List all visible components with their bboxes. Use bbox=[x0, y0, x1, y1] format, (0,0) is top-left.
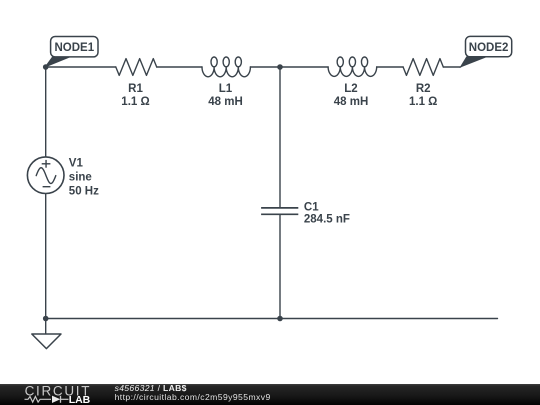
NODE2 flag pointer bbox=[461, 57, 486, 67]
capacitor C1 top plate bbox=[261, 207, 298, 209]
svg-text:1.1 Ω: 1.1 Ω bbox=[121, 96, 149, 108]
capacitor C1 bottom plate bbox=[261, 213, 298, 215]
V1 minus sign bbox=[43, 186, 51, 188]
wire: V1 minus terminal down to bottom rail bbox=[45, 194, 47, 319]
wire: ground stub below junction bbox=[45, 319, 47, 334]
svg-text:R1: R1 bbox=[128, 83, 143, 95]
wire: L1 to node A junction bbox=[250, 66, 280, 68]
svg-text:48 mH: 48 mH bbox=[334, 96, 369, 108]
CircuitLab logo diode triangle bbox=[52, 396, 60, 403]
svg-text:http://circuitlab.com/c2m59y95: http://circuitlab.com/c2m59y955mxv9 bbox=[115, 392, 271, 402]
svg-text:48 mH: 48 mH bbox=[208, 96, 243, 108]
wire: L2 to R2 bbox=[377, 66, 403, 68]
wire: R2 to NODE2 terminal bbox=[443, 66, 460, 68]
svg-text:1.1 Ω: 1.1 Ω bbox=[409, 96, 437, 108]
svg-text:LAB: LAB bbox=[69, 394, 91, 405]
svg-text:50 Hz: 50 Hz bbox=[69, 185, 99, 197]
ground symbol bbox=[32, 334, 61, 349]
svg-text:NODE1: NODE1 bbox=[54, 42, 94, 54]
wire: C1 bottom plate down to bottom rail bbox=[279, 215, 281, 319]
svg-text:L2: L2 bbox=[344, 83, 357, 95]
svg-text:L1: L1 bbox=[219, 83, 233, 95]
wire: bottom ground rail bbox=[46, 318, 498, 320]
V1 sine waveform glyph bbox=[36, 168, 56, 184]
inductor L2 top loops bbox=[337, 57, 343, 67]
inductor L1 top loops bbox=[211, 57, 217, 67]
NODE1 flag pointer bbox=[45, 57, 70, 67]
junction dot: bottom-left ground node bbox=[43, 316, 49, 322]
wire: node A junction to L2 bbox=[280, 66, 328, 68]
footer bar bbox=[0, 384, 540, 405]
svg-text:V1: V1 bbox=[69, 157, 84, 169]
svg-text:284.5 nF: 284.5 nF bbox=[304, 214, 350, 226]
voltage source V1 circle bbox=[27, 157, 64, 194]
svg-text:sine: sine bbox=[69, 172, 92, 184]
svg-text:R2: R2 bbox=[416, 83, 431, 95]
wire: R1 to L1 bbox=[157, 66, 202, 68]
CircuitLab logo resistor-diode squiggle bbox=[25, 396, 69, 403]
wire: NODE1 down to V1 plus terminal bbox=[45, 67, 47, 157]
NODE2 flag box bbox=[466, 36, 512, 56]
junction dot: bottom of C1 branch bbox=[277, 316, 283, 322]
svg-text:C1: C1 bbox=[304, 201, 319, 213]
junction dot: node A (top of C1) bbox=[277, 64, 283, 70]
wire: NODE1 junction to R1 left terminal bbox=[46, 66, 116, 68]
inductor L1 bbox=[202, 67, 250, 77]
resistor R2 bbox=[403, 59, 443, 76]
junction dot: NODE1 node bbox=[43, 64, 49, 70]
svg-text:NODE2: NODE2 bbox=[469, 42, 509, 54]
inductor L2 bbox=[328, 67, 377, 76]
NODE1 flag box bbox=[51, 37, 98, 57]
wire: node A down to C1 top plate bbox=[279, 67, 281, 207]
resistor R1 bbox=[116, 59, 157, 76]
V1 plus sign bbox=[42, 160, 51, 168]
